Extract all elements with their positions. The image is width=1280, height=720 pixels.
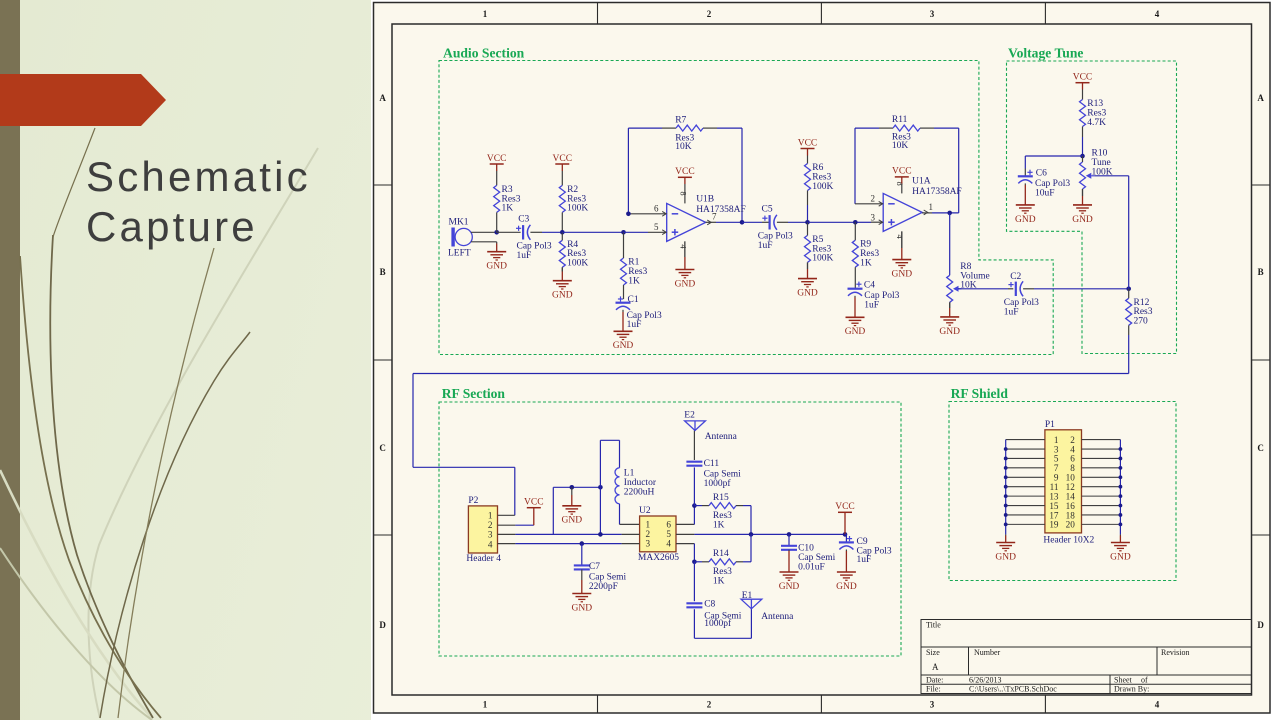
pin R6 top <box>807 156 809 164</box>
pin R10 bottom <box>1082 189 1084 196</box>
svg-text:2: 2 <box>488 520 493 530</box>
inner drawing frame <box>392 24 1252 695</box>
resistor R1 <box>621 258 648 287</box>
wire ground net horizontal <box>553 486 600 488</box>
pin U1A power bottom <box>901 231 903 248</box>
pins P1 right <box>1082 440 1121 525</box>
wire L1 bottom to U2.1 <box>619 504 621 525</box>
ground <box>675 241 696 289</box>
svg-text:100K: 100K <box>567 204 588 214</box>
svg-text:C3: C3 <box>518 214 529 224</box>
svg-text:GND: GND <box>572 603 593 613</box>
svg-text:R10: R10 <box>1092 149 1108 159</box>
pin P2.4 <box>498 543 516 545</box>
wire P2.4 to U2.3 <box>515 543 621 545</box>
ground <box>486 242 507 272</box>
pin R1 top <box>623 232 625 258</box>
svg-text:1K: 1K <box>713 520 725 530</box>
resistor R13 <box>1080 99 1107 128</box>
svg-text:GND: GND <box>892 270 913 280</box>
pin R4 top <box>561 232 563 240</box>
svg-text:4: 4 <box>1155 700 1160 710</box>
ground <box>836 550 857 592</box>
svg-text:100K: 100K <box>812 182 833 192</box>
power VCC <box>553 154 573 171</box>
node R13/R10/C6 junction <box>1080 154 1085 159</box>
ground <box>552 267 573 300</box>
svg-text:P2: P2 <box>468 496 478 506</box>
svg-text:C9: C9 <box>857 537 868 547</box>
pin R12 top <box>1128 289 1130 299</box>
svg-text:C4: C4 <box>864 280 875 290</box>
svg-text:Revision: Revision <box>1161 648 1189 657</box>
node mic/R3/C3 junction <box>494 230 499 235</box>
svg-text:VCC: VCC <box>553 154 573 164</box>
RF Shield box <box>949 402 1176 581</box>
svg-text:C: C <box>1257 443 1264 453</box>
wire R1 node to U1B pin 5 <box>624 231 667 233</box>
svg-text:1K: 1K <box>628 276 640 286</box>
svg-text:GND: GND <box>562 516 583 526</box>
resistor R6 <box>805 163 834 192</box>
nodes P1 left bus junctions <box>1004 447 1008 526</box>
svg-text:GND: GND <box>552 291 573 301</box>
ground <box>613 310 634 351</box>
svg-text:GND: GND <box>486 262 507 272</box>
svg-text:8: 8 <box>678 191 688 195</box>
svg-text:1000pf: 1000pf <box>704 618 732 629</box>
wire R7 feedback loop <box>628 128 742 222</box>
wire R2 node to R1 node <box>562 231 623 233</box>
pin U1A power top <box>901 184 903 194</box>
svg-text:of: of <box>1141 676 1148 685</box>
svg-text:GND: GND <box>675 279 696 289</box>
wire node to C6 <box>1025 156 1082 176</box>
connector P1 <box>1043 420 1094 546</box>
svg-text:1: 1 <box>929 202 934 212</box>
capacitor C1 <box>616 295 662 330</box>
wire R8 wiper to C2 <box>958 288 1013 290</box>
nodes P1 right bus junctions <box>1119 447 1123 526</box>
svg-text:LEFT: LEFT <box>448 249 471 259</box>
power VCC <box>892 167 912 184</box>
wire R12 to RF section <box>413 335 1129 515</box>
svg-text:4: 4 <box>1155 9 1160 19</box>
svg-text:3: 3 <box>930 700 935 710</box>
capacitor C6 <box>1018 169 1071 199</box>
svg-text:GND: GND <box>995 552 1016 562</box>
svg-text:3: 3 <box>646 539 651 549</box>
svg-text:B: B <box>380 267 386 277</box>
wire C8 to antenna E1 <box>694 609 751 639</box>
pin R9 top <box>854 222 856 240</box>
svg-text:C10: C10 <box>798 544 814 554</box>
node U1B pin6 feedback junction <box>626 212 631 217</box>
wire U2.6 to C11 node <box>693 506 695 525</box>
Voltage Tune box <box>1007 61 1177 354</box>
wire U2.5 output bus <box>694 533 845 535</box>
svg-text:C:\Users\..\TxPCB.SchDoc: C:\Users\..\TxPCB.SchDoc <box>969 685 1057 694</box>
svg-text:VCC: VCC <box>798 138 818 148</box>
wire R11 loop <box>855 128 959 213</box>
wire R14 left <box>694 561 709 563</box>
wire output to C5 <box>742 221 769 223</box>
svg-text:C6: C6 <box>1036 169 1047 179</box>
svg-text:L1: L1 <box>624 469 635 479</box>
wire U1A output <box>922 212 959 214</box>
svg-text:0.01uF: 0.01uF <box>798 563 825 573</box>
svg-text:4: 4 <box>678 244 688 249</box>
svg-text:4: 4 <box>488 539 493 549</box>
pin R2 top <box>561 171 563 185</box>
wire P1 left bus <box>1005 440 1007 535</box>
node U1A output junction <box>947 211 952 216</box>
svg-text:C11: C11 <box>704 459 720 469</box>
wire R6 node to U1A pin 3 <box>808 221 883 223</box>
svg-text:R15: R15 <box>713 493 729 503</box>
svg-text:Voltage Tune: Voltage Tune <box>1008 46 1083 61</box>
svg-text:RF Section: RF Section <box>442 386 506 401</box>
capacitor C4 <box>848 280 900 310</box>
svg-text:6: 6 <box>666 520 671 530</box>
svg-text:4: 4 <box>666 539 671 549</box>
svg-text:1K: 1K <box>502 204 514 214</box>
capacitor C10 <box>781 544 836 573</box>
svg-text:MK1: MK1 <box>449 218 469 228</box>
node R2/R4/C3 junction <box>560 230 565 235</box>
wire C2 to R12 node <box>1023 288 1129 290</box>
svg-text:6/26/2013: 6/26/2013 <box>969 676 1001 685</box>
schematic sheet background <box>371 0 1280 720</box>
svg-text:GND: GND <box>845 327 866 337</box>
svg-text:Title: Title <box>926 621 941 630</box>
inductor L1 <box>615 468 657 504</box>
node VCC/C9 junction <box>843 532 848 537</box>
svg-text:1K: 1K <box>860 259 872 269</box>
svg-text:GND: GND <box>1015 215 1036 225</box>
node R9 junction <box>853 220 858 225</box>
pin P2.3 <box>498 533 516 535</box>
svg-text:1: 1 <box>646 520 651 530</box>
ground <box>939 302 960 337</box>
resistor R3 <box>494 185 521 214</box>
svg-text:1: 1 <box>483 9 488 19</box>
resistor R14 <box>709 549 736 586</box>
pin U2.3 <box>622 543 640 545</box>
capacitor C8 <box>686 599 741 629</box>
antenna E2 <box>684 410 737 442</box>
op-amp U1B <box>654 191 746 249</box>
power VCC <box>487 154 507 171</box>
power VCC <box>798 138 818 155</box>
svg-text:RF Shield: RF Shield <box>951 386 1009 401</box>
svg-text:100K: 100K <box>567 259 588 269</box>
pin U2.2 <box>622 533 640 535</box>
ground <box>995 534 1016 562</box>
pin R2 bottom <box>561 212 563 232</box>
pin U2.6 <box>676 523 694 525</box>
svg-text:7: 7 <box>712 211 717 221</box>
svg-text:GND: GND <box>613 341 634 351</box>
ground <box>572 569 593 613</box>
power VCC <box>1073 73 1093 90</box>
pin R4 bottom <box>561 267 563 271</box>
wire C8 top <box>693 562 695 601</box>
pin U1B power top <box>684 184 686 203</box>
svg-text:HA17358AF: HA17358AF <box>912 187 962 197</box>
svg-text:U2: U2 <box>639 506 651 516</box>
wire L1 top loop <box>600 440 619 487</box>
svg-text:Header 4: Header 4 <box>466 554 501 564</box>
svg-text:4.7K: 4.7K <box>1087 118 1106 128</box>
ground <box>797 262 818 298</box>
wire mic output <box>471 232 497 242</box>
svg-text:10K: 10K <box>675 142 692 152</box>
wire P2.2 to VCC <box>515 524 533 526</box>
power VCC <box>675 167 695 184</box>
wire C3 left pin <box>497 231 521 233</box>
resistor R12 <box>1126 298 1153 327</box>
resistor R4 <box>559 240 588 269</box>
svg-text:VCC: VCC <box>892 167 912 177</box>
svg-text:1000pf: 1000pf <box>704 478 732 489</box>
svg-text:R8: R8 <box>960 262 971 272</box>
svg-text:MAX2605: MAX2605 <box>638 553 679 563</box>
connector P2 <box>466 496 501 564</box>
pin R10 top <box>1082 156 1084 162</box>
wire feedback to U1B pin 6 <box>628 128 666 214</box>
resistor R11 <box>892 115 920 151</box>
svg-text:GND: GND <box>939 327 960 337</box>
svg-text:A: A <box>1257 93 1264 103</box>
capacitor C2 <box>1004 272 1039 317</box>
wire C7 top <box>581 544 583 566</box>
svg-text:D: D <box>379 620 386 630</box>
capacitor C3 <box>516 214 552 261</box>
wire R10 wiper to R12 node <box>1094 176 1128 289</box>
svg-text:Antenna: Antenna <box>761 612 794 622</box>
svg-text:C1: C1 <box>628 295 639 305</box>
pin R5 bottom <box>807 262 809 269</box>
wire output to R8 <box>949 213 951 275</box>
svg-text:1uF: 1uF <box>758 241 773 251</box>
potentiometer R8 <box>947 262 990 302</box>
svg-text:VCC: VCC <box>675 167 695 177</box>
svg-text:GND: GND <box>1072 215 1093 225</box>
ground <box>779 550 800 592</box>
svg-text:R7: R7 <box>675 115 686 125</box>
ground <box>1110 534 1131 562</box>
node C10 junction <box>787 532 792 537</box>
svg-text:2: 2 <box>646 529 651 539</box>
svg-text:4: 4 <box>895 234 905 239</box>
pin U2.5 <box>676 533 694 535</box>
wire U1B output <box>706 221 742 223</box>
svg-text:2200pF: 2200pF <box>589 582 618 592</box>
node R6/R5 junction <box>805 220 810 225</box>
RF Section box <box>439 402 901 656</box>
wire C9 top <box>845 534 846 542</box>
pin R6 bottom <box>807 191 809 223</box>
pin R3 bottom <box>496 212 498 232</box>
svg-text:VCC: VCC <box>487 154 507 164</box>
pin U2.4 <box>676 543 694 545</box>
svg-text:8: 8 <box>895 181 905 185</box>
node C11/R15 junction <box>692 503 697 508</box>
wire R15 right to bus <box>736 506 751 535</box>
svg-text:VCC: VCC <box>524 498 544 508</box>
wire L1 loop riser <box>599 487 601 534</box>
svg-text:Audio Section: Audio Section <box>443 46 525 61</box>
svg-text:A: A <box>932 662 939 672</box>
svg-text:1: 1 <box>488 511 493 521</box>
zone tick marks <box>374 3 1271 714</box>
svg-text:HA17358AF: HA17358AF <box>696 205 746 215</box>
svg-text:GND: GND <box>1110 552 1131 562</box>
pin R1 bottom <box>623 285 625 299</box>
svg-text:C2: C2 <box>1010 272 1021 282</box>
svg-text:5: 5 <box>666 529 671 539</box>
svg-text:2: 2 <box>707 700 712 710</box>
svg-text:C: C <box>379 443 386 453</box>
svg-text:10uF: 10uF <box>1035 188 1055 198</box>
svg-text:1uF: 1uF <box>517 251 532 261</box>
pin R5 top <box>807 222 809 235</box>
wire C5 to R6/R5 node <box>777 221 808 223</box>
resistor R2 <box>559 185 588 214</box>
wire R14 right to bus <box>736 534 751 561</box>
svg-text:Number: Number <box>974 648 1001 657</box>
pin R8 bottom <box>949 302 951 308</box>
pins P1 left <box>1006 440 1045 525</box>
capacitor C5 <box>758 205 793 251</box>
microphone MK1 <box>448 218 472 259</box>
svg-text:E2: E2 <box>684 410 695 420</box>
svg-text:2200uH: 2200uH <box>624 488 655 498</box>
node L1 loop junction <box>598 485 603 490</box>
node R1 junction <box>621 230 626 235</box>
pin P2.1 <box>498 514 515 516</box>
ground <box>1015 183 1036 224</box>
resistor R15 <box>709 493 736 530</box>
wire riser to ground net <box>552 487 554 534</box>
wire U2.4 to R14 node <box>693 544 695 562</box>
Audio Section box <box>439 61 1053 355</box>
svg-text:Drawn By:: Drawn By: <box>1114 685 1149 694</box>
svg-text:Date:: Date: <box>926 676 943 685</box>
pin R9 bottom <box>854 267 856 289</box>
svg-text:1K: 1K <box>713 577 725 587</box>
wire R15 left <box>694 505 709 507</box>
capacitor C9 <box>839 536 892 565</box>
ground <box>562 487 583 525</box>
antenna E1 <box>741 591 794 622</box>
svg-text:E1: E1 <box>742 591 753 601</box>
node R12 junction <box>1126 287 1131 292</box>
svg-text:C8: C8 <box>704 599 715 609</box>
svg-text:Antenna: Antenna <box>705 432 738 442</box>
resistor R9 <box>852 240 879 269</box>
power VCC <box>524 498 544 526</box>
svg-text:10K: 10K <box>892 141 909 151</box>
svg-text:File:: File: <box>926 685 941 694</box>
capacitor C11 <box>686 459 741 489</box>
svg-text:20: 20 <box>1066 520 1076 530</box>
resistor R7 <box>675 115 703 151</box>
resistor R5 <box>805 235 834 264</box>
svg-text:270: 270 <box>1134 317 1149 327</box>
capacitor C7 <box>574 562 627 592</box>
pin U2.1 <box>620 523 640 525</box>
pin R12 bottom <box>1128 325 1130 335</box>
node L1 riser base <box>598 532 603 537</box>
wire P1 right bus <box>1119 440 1121 535</box>
pin R13 top <box>1082 90 1084 100</box>
svg-text:GND: GND <box>779 582 800 592</box>
svg-text:3: 3 <box>488 530 493 540</box>
svg-text:GND: GND <box>797 289 818 299</box>
wire C3 to R2/R4 node <box>530 231 562 233</box>
svg-text:P1: P1 <box>1045 420 1055 430</box>
wire R11 feedback to U1A pin 2 <box>855 128 883 204</box>
wire C10 top <box>788 534 790 545</box>
svg-text:VCC: VCC <box>1073 73 1093 83</box>
node R14/C8 junction <box>692 560 697 565</box>
svg-text:U1B: U1B <box>696 195 714 205</box>
svg-text:Header 10X2: Header 10X2 <box>1043 536 1094 546</box>
title block <box>921 620 1252 694</box>
svg-text:R14: R14 <box>713 549 729 559</box>
svg-text:19: 19 <box>1049 520 1059 530</box>
power VCC <box>835 502 855 534</box>
svg-text:1uF: 1uF <box>857 555 872 565</box>
pin antenna E2 <box>693 431 695 461</box>
svg-text:GND: GND <box>836 582 857 592</box>
pin R3 top <box>496 171 498 185</box>
node U1B output junction <box>740 220 745 225</box>
svg-text:C5: C5 <box>762 205 773 215</box>
svg-text:VCC: VCC <box>835 502 855 512</box>
svg-text:R11: R11 <box>892 115 908 125</box>
svg-text:100K: 100K <box>812 254 833 264</box>
svg-text:U1A: U1A <box>912 176 931 186</box>
pin P2.2 <box>498 524 516 526</box>
node C7 junction <box>580 541 585 546</box>
node R15/R14 bus junction <box>749 532 754 537</box>
svg-text:1: 1 <box>483 700 488 710</box>
svg-text:Size: Size <box>926 648 940 657</box>
op-amp U1A <box>871 176 962 239</box>
svg-text:Sheet: Sheet <box>1114 676 1133 685</box>
pin U1B power bottom <box>684 241 686 257</box>
svg-text:3: 3 <box>930 9 935 19</box>
svg-text:1uF: 1uF <box>864 300 879 310</box>
ground <box>845 296 866 337</box>
svg-text:B: B <box>1258 267 1264 277</box>
ground <box>1072 189 1093 225</box>
svg-text:C7: C7 <box>589 562 600 572</box>
ground <box>892 231 913 279</box>
zone labels <box>379 9 1264 710</box>
pin R13 bottom <box>1082 127 1084 157</box>
wire P2.3 to U2.2 <box>515 533 621 535</box>
svg-text:2: 2 <box>707 9 712 19</box>
svg-text:1uF: 1uF <box>627 320 642 330</box>
node ground junction <box>570 485 575 490</box>
svg-text:5: 5 <box>654 222 659 232</box>
svg-text:1uF: 1uF <box>1004 307 1019 317</box>
svg-text:6: 6 <box>654 204 659 214</box>
